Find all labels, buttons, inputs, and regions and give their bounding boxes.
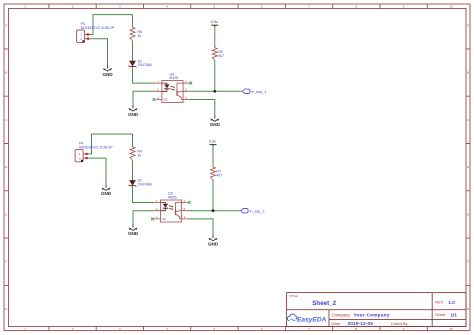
svg-text:GND: GND <box>210 122 221 127</box>
wire <box>212 180 214 211</box>
ground below P3 <box>103 65 111 71</box>
U4 light arrows <box>170 86 174 88</box>
svg-text:Sheet_2: Sheet_2 <box>312 300 336 307</box>
ground below U4 pin 4 <box>211 115 219 121</box>
connector P4 <box>75 149 88 161</box>
svg-text:1k: 1k <box>137 154 141 158</box>
wire <box>133 186 155 202</box>
power flag 3.3v (R7 pull-up) <box>210 145 217 147</box>
svg-text:4N25: 4N25 <box>168 196 177 200</box>
wire <box>214 61 216 92</box>
svg-text:C: C <box>5 118 7 122</box>
svg-text:D: D <box>467 165 469 169</box>
wire <box>133 67 156 83</box>
no-connect X on U4 pin 6 <box>189 82 192 85</box>
ground below U3 pin 4 <box>209 235 217 241</box>
svg-text:B: B <box>467 71 469 75</box>
svg-text:10: 10 <box>449 327 453 331</box>
svg-text:C: C <box>467 118 469 122</box>
svg-text:4k7: 4k7 <box>218 54 224 58</box>
svg-text:10: 10 <box>449 4 453 8</box>
resistor R6 <box>212 48 217 61</box>
svg-text:REV:: REV: <box>435 301 444 305</box>
junction <box>212 209 215 212</box>
svg-text:WJ2EDGVC-5.08-2P: WJ2EDGVC-5.08-2P <box>81 26 115 30</box>
no-connect X on U3 pin 6 <box>188 201 191 204</box>
optocoupler U4 (4N25) <box>156 81 190 103</box>
svg-text:GND: GND <box>208 242 219 247</box>
U4 internal LED <box>164 84 169 88</box>
ground below U4 pin 2 <box>129 105 137 111</box>
svg-text:1.0: 1.0 <box>448 300 455 305</box>
svg-text:F: F <box>467 260 469 264</box>
ground below U3 pin 2 <box>129 224 137 230</box>
svg-text:2019-12-05: 2019-12-05 <box>348 321 374 327</box>
junction <box>213 90 216 93</box>
wire <box>188 210 241 212</box>
resistor R4 <box>130 147 135 161</box>
svg-text:Your Company: Your Company <box>354 313 390 319</box>
net port in_esp_1 <box>242 89 250 93</box>
U3 light arrows <box>169 206 173 208</box>
wire <box>133 211 154 225</box>
svg-text:Date:: Date: <box>332 321 342 326</box>
U4 pin numbers <box>157 80 187 100</box>
svg-text:1k: 1k <box>137 34 141 38</box>
svg-text:A: A <box>467 23 469 27</box>
svg-text:1N4748A: 1N4748A <box>138 63 153 67</box>
resistor R5 <box>130 27 135 41</box>
resistor R7 <box>211 167 216 180</box>
wire <box>132 15 134 28</box>
optocoupler U3 (4N25) <box>154 200 188 222</box>
wire <box>133 91 156 105</box>
svg-text:WJ2EDGVC-5.08-2P: WJ2EDGVC-5.08-2P <box>79 146 113 150</box>
wire <box>87 134 133 154</box>
svg-text:GND: GND <box>128 231 139 236</box>
svg-text:GND: GND <box>101 191 112 196</box>
svg-text:D: D <box>5 165 7 169</box>
net port in_esp_2 <box>241 209 249 213</box>
wire <box>88 39 108 65</box>
wire <box>88 15 133 35</box>
svg-text:TITLE:: TITLE: <box>289 294 298 298</box>
wire <box>189 100 215 116</box>
wire <box>132 160 134 180</box>
svg-text:E: E <box>5 212 7 216</box>
svg-text:Company:: Company: <box>332 312 351 317</box>
svg-text:3.3v: 3.3v <box>211 20 218 24</box>
wire <box>87 158 106 184</box>
connector P3 <box>77 30 90 42</box>
wire <box>132 134 134 147</box>
svg-text:B: B <box>5 71 7 75</box>
svg-text:F: F <box>5 260 7 264</box>
svg-text:A: A <box>5 23 7 27</box>
title block <box>287 293 466 327</box>
no-connect X on U3 pin 3 <box>151 217 154 220</box>
svg-text:4k7: 4k7 <box>216 174 222 178</box>
no-connect X on U4 pin 3 <box>153 98 156 101</box>
EasyEDA logo <box>287 314 297 321</box>
wire <box>214 27 216 48</box>
svg-text:Sheet:: Sheet: <box>435 313 446 317</box>
wire <box>189 90 242 92</box>
ground below P4 <box>102 184 110 190</box>
svg-text:1/1: 1/1 <box>451 312 458 317</box>
svg-text:3.3v: 3.3v <box>209 140 216 144</box>
svg-text:GND: GND <box>102 72 113 77</box>
power flag 3.3v (R6 pull-up) <box>211 25 218 27</box>
svg-text:EasyEDA: EasyEDA <box>297 316 327 323</box>
U3 pin numbers <box>156 199 186 219</box>
svg-text:GND: GND <box>128 112 139 117</box>
wire <box>212 146 214 167</box>
svg-text:4N25: 4N25 <box>169 76 178 80</box>
wire <box>188 219 213 235</box>
wire <box>132 41 134 61</box>
svg-text:in_esp_2: in_esp_2 <box>250 209 265 213</box>
diode D1 (zener 1N4748A) <box>129 180 137 186</box>
diode D2 (zener 1N4748A) <box>129 61 137 67</box>
svg-text:Drawn By:: Drawn By: <box>391 322 409 326</box>
svg-text:E: E <box>467 212 469 216</box>
svg-text:in_esp_1: in_esp_1 <box>251 90 266 94</box>
svg-text:1N4748A: 1N4748A <box>138 183 153 187</box>
U3 internal LED <box>163 204 168 208</box>
